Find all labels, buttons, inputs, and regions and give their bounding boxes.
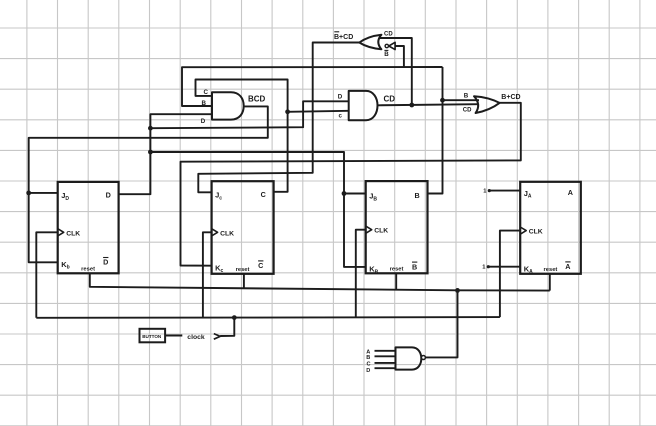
NAND input wires: [375, 351, 396, 368]
wire BCD output loop: [29, 106, 268, 262]
NAND input label C: [367, 362, 371, 368]
wire NAND output: [425, 290, 457, 357]
wire button to clock label: [165, 335, 182, 337]
wire clock arrow to riser: [220, 318, 234, 336]
U3 B flip-flop: [366, 181, 428, 275]
clock BUTTON box: [140, 329, 166, 343]
NAND gate U10: [396, 347, 426, 369]
wire CLK1 leg: [36, 232, 57, 317]
AND gate BCD (U5): [212, 92, 266, 119]
junction J_D feed: [26, 191, 31, 196]
svg-text:D: D: [366, 368, 370, 374]
BCD input label D: [201, 118, 206, 125]
svg-text:C: C: [261, 190, 266, 199]
junction C to CDgate: [285, 109, 290, 114]
svg-text:D: D: [201, 118, 206, 125]
junction reset-NAND: [455, 288, 460, 293]
CD input label D: [338, 93, 343, 100]
label 1 at K_A: [482, 265, 486, 271]
wire CD line: [378, 104, 479, 105]
wire J_A input: [488, 189, 521, 192]
junction B to OR2: [440, 98, 445, 103]
wire C output wrap: [196, 80, 288, 192]
U8 input label CD: [384, 32, 393, 38]
OR gate B+CD (U7): [474, 94, 521, 113]
wire D to CD-gate D input: [150, 101, 348, 128]
svg-text:CLK: CLK: [374, 228, 388, 235]
wire reset2 leg: [243, 274, 245, 289]
wire J_D input: [29, 192, 58, 194]
junction CD to OR1: [409, 103, 414, 108]
CD input label c: [339, 113, 343, 120]
junction J_B feed: [342, 191, 347, 196]
wire B+CD output loop: [181, 103, 521, 266]
svg-text:B: B: [415, 191, 420, 200]
junction D to JB: [148, 150, 153, 155]
svg-text:B+CD: B+CD: [334, 34, 353, 41]
svg-text:A: A: [568, 188, 573, 197]
svg-text:B: B: [464, 93, 469, 100]
inverter U9 for B_bar: [385, 42, 395, 49]
svg-text:A: A: [565, 262, 570, 271]
reset rail: [90, 273, 550, 290]
svg-text:B: B: [384, 51, 389, 58]
svg-text:reset: reset: [544, 267, 558, 273]
svg-text:B: B: [366, 355, 370, 361]
svg-text:CLK: CLK: [529, 229, 543, 236]
NAND input label A: [366, 349, 370, 355]
wire B_bar+CD output: [198, 43, 359, 193]
svg-text:B: B: [412, 262, 417, 271]
wire K_A input: [487, 265, 521, 268]
svg-text:D: D: [338, 93, 343, 100]
svg-text:reset: reset: [390, 267, 404, 273]
OR gate B_bar+CD (U8): [359, 35, 381, 50]
wire B into OR2: [443, 99, 480, 101]
svg-text:D: D: [103, 258, 108, 267]
NAND input label B: [366, 355, 370, 361]
wire B line: [182, 67, 443, 106]
svg-text:CD: CD: [463, 108, 472, 114]
svg-text:CLK: CLK: [66, 230, 80, 237]
svg-text:BCD: BCD: [248, 95, 266, 104]
label clock: [187, 334, 205, 341]
U4 A flip-flop: [520, 182, 581, 275]
wire J_B input: [344, 193, 366, 195]
svg-text:CD: CD: [384, 32, 393, 38]
svg-text:reset: reset: [236, 267, 250, 273]
svg-text:CD: CD: [384, 95, 396, 104]
svg-text:clock: clock: [187, 334, 205, 341]
OR2 input label CD: [463, 108, 472, 114]
U1 D flip-flop: [58, 182, 119, 273]
U9 label B_bar: [384, 50, 389, 58]
svg-text:reset: reset: [81, 267, 95, 273]
wire CLK2 leg: [203, 232, 212, 317]
U8 output label B_bar+CD: [334, 32, 353, 41]
junction clock rail: [232, 315, 237, 320]
wire CLK3 leg: [356, 230, 366, 318]
wire CD up to OR1 input: [379, 38, 412, 105]
U2 C flip-flop: [212, 181, 274, 274]
svg-text:c: c: [339, 113, 343, 120]
BCD input label C: [204, 89, 209, 96]
junction D to CDgate: [148, 126, 153, 131]
svg-text:D: D: [106, 191, 111, 200]
wire C to CD-gate c input: [288, 111, 349, 112]
svg-text:CLK: CLK: [220, 230, 234, 237]
wire B_bar inverter feed: [395, 46, 404, 67]
svg-text:BUTTON: BUTTON: [142, 334, 162, 339]
AND gate CD (U6): [349, 91, 396, 120]
wire D output riser: [119, 114, 212, 194]
svg-text:C: C: [258, 261, 263, 270]
BCD input label B: [202, 100, 207, 107]
clock arrowhead: [214, 334, 220, 340]
NAND input label D: [366, 368, 370, 374]
wire B output riser: [428, 67, 443, 194]
svg-text:B+CD: B+CD: [501, 94, 520, 101]
wire reset3 leg: [395, 273, 397, 289]
wire reset4 leg: [549, 274, 551, 291]
label 1 at J_A: [483, 189, 487, 195]
OR2 input label B: [464, 93, 469, 100]
clock rail: [36, 316, 500, 319]
wire CLK4 leg: [500, 231, 520, 318]
wire D branch to J_B K_B: [150, 152, 365, 267]
svg-text:C: C: [367, 362, 371, 368]
